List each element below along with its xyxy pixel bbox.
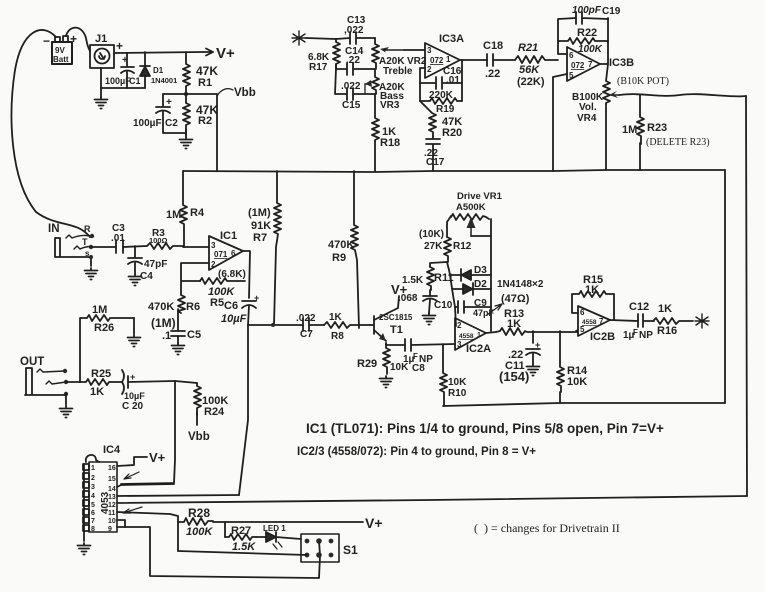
wire VR4 bottom to Vbb rail <box>605 107 607 170</box>
wire IC4 pin11 to R28/S1 <box>117 512 178 551</box>
diode D1 1N4001 <box>140 52 177 88</box>
switch S1 <box>301 534 358 562</box>
op-amp IC2B 4558 <box>578 306 615 343</box>
svg-text:D2: D2 <box>474 279 487 290</box>
svg-text:1K: 1K <box>90 386 104 398</box>
svg-text:R11: R11 <box>434 272 454 284</box>
svg-text:9: 9 <box>108 526 112 533</box>
svg-text:5: 5 <box>580 325 585 334</box>
wire OUT sleeve to ground <box>65 394 67 405</box>
svg-text:10µF: 10µF <box>221 313 247 325</box>
wire Vbb top rail <box>183 170 725 172</box>
node OUT tip <box>64 380 68 384</box>
resistor R1 47K <box>183 52 218 96</box>
svg-text:.22: .22 <box>485 68 500 80</box>
wire pin6 junction to feedback <box>558 18 576 54</box>
capacitor C3 .01 <box>111 223 125 253</box>
svg-text:10K: 10K <box>448 377 467 388</box>
svg-text:C 20: C 20 <box>122 401 144 412</box>
node IN tip <box>89 245 93 249</box>
svg-text:(6.8K): (6.8K) <box>218 269 246 280</box>
svg-text:27K: 27K <box>424 241 443 252</box>
svg-text:Vol.: Vol. <box>579 102 597 113</box>
svg-text:47pF: 47pF <box>473 308 495 318</box>
svg-text:1K: 1K <box>329 312 343 323</box>
resistor R13 1K <box>496 308 577 335</box>
pin pads IC4 left <box>83 464 89 470</box>
wire IC3A output feedback vertical <box>460 60 462 101</box>
pot VR1 Drive A500K <box>451 191 503 236</box>
svg-text:(B10K POT): (B10K POT) <box>617 76 669 87</box>
svg-text:470K: 470K <box>148 301 174 313</box>
svg-text:,022: ,022 <box>344 25 364 36</box>
svg-text:C1: C1 <box>129 76 141 86</box>
wire J1 to V+ <box>114 52 203 53</box>
wire IC4 pin14 to C20 node (via right) <box>117 484 174 487</box>
jack OUT <box>20 356 66 395</box>
svg-text:R21: R21 <box>518 42 538 54</box>
svg-text:.068: .068 <box>398 293 418 304</box>
svg-text:OUT: OUT <box>20 356 44 368</box>
svg-text:R: R <box>84 224 91 234</box>
svg-text:R18: R18 <box>380 137 400 149</box>
svg-text:1M: 1M <box>92 304 107 316</box>
resistor R2 47K <box>183 96 218 135</box>
wire IC3B output node <box>600 18 608 64</box>
svg-text:1N4001: 1N4001 <box>151 76 177 85</box>
svg-text:1.5K: 1.5K <box>402 275 424 286</box>
pot VR4 B100K Vol <box>572 64 669 124</box>
svg-text:1M: 1M <box>166 209 181 221</box>
svg-text:100K: 100K <box>186 526 213 538</box>
capacitor C7 .022 <box>296 313 324 340</box>
svg-text:Vbb: Vbb <box>234 87 256 99</box>
capacitor C4 47pF <box>128 246 167 282</box>
wire IN sleeve to ground <box>90 257 92 266</box>
capacitor C13 .022 <box>336 15 375 44</box>
svg-text:( ) = changes for Drivetrain: ( ) = changes for Drivetrain II <box>474 521 620 535</box>
wire VR1 left to R12 <box>447 216 451 237</box>
svg-text:R12: R12 <box>453 241 472 252</box>
svg-text:R28: R28 <box>188 506 210 520</box>
svg-text:R26: R26 <box>94 322 114 334</box>
diode D3 1N4148 <box>450 265 491 281</box>
wire R13 to IC2B pin5 <box>576 330 578 331</box>
svg-text:C2: C2 <box>165 118 178 129</box>
svg-text:NP: NP <box>639 330 653 341</box>
svg-text:+: + <box>122 55 128 66</box>
wire Vbb right rail <box>724 170 726 403</box>
svg-text:F: F <box>413 352 418 361</box>
svg-text:R25: R25 <box>91 368 111 380</box>
ground under J1 <box>95 97 108 109</box>
svg-text:C12: C12 <box>629 301 649 313</box>
svg-text:5: 5 <box>569 71 574 80</box>
wire right rail down to IC4 pin12 line <box>746 96 747 496</box>
svg-text:1N4148×2: 1N4148×2 <box>497 279 544 290</box>
wire J1 down to ground rail <box>101 68 145 88</box>
svg-text:9V: 9V <box>55 46 65 55</box>
svg-text:6: 6 <box>569 51 574 60</box>
capacitor C2 100uF <box>133 94 186 133</box>
svg-text:R4: R4 <box>190 207 205 219</box>
svg-text:R10: R10 <box>448 388 467 399</box>
svg-text:470K: 470K <box>328 239 354 251</box>
svg-text:R27: R27 <box>231 525 251 537</box>
ground under C10 <box>423 313 436 325</box>
IC IC4 4053 <box>83 444 121 533</box>
svg-text:IC3A: IC3A <box>439 33 464 45</box>
svg-text:VR3: VR3 <box>380 100 400 111</box>
svg-text:4558: 4558 <box>459 333 474 340</box>
svg-text:+: + <box>116 39 123 53</box>
svg-text:100µF: 100µF <box>105 76 131 86</box>
resistor R4 1M <box>166 171 205 247</box>
svg-text:Batt: Batt <box>53 55 69 64</box>
svg-text:13: 13 <box>108 494 116 501</box>
connector J1 power jack <box>90 33 123 68</box>
svg-text:6: 6 <box>91 510 95 517</box>
wire IC3A pin2 to feedback <box>420 68 425 101</box>
SECTION:OUTPUT <box>78 444 748 578</box>
ground under R2/C2 <box>185 129 187 137</box>
node C6/R7 junction <box>271 323 275 327</box>
resistor R20 47K <box>420 101 462 139</box>
wire Vbb bottom rail <box>443 403 725 406</box>
svg-text:15: 15 <box>108 476 116 483</box>
svg-text:3: 3 <box>91 484 95 491</box>
resistor R8 1K <box>324 312 371 342</box>
svg-text:IN: IN <box>48 223 60 235</box>
svg-text:91K: 91K <box>251 220 271 232</box>
svg-text:(DELETE R23): (DELETE R23) <box>646 137 710 148</box>
svg-text:071: 071 <box>214 250 228 259</box>
capacitor C8 1uF NP <box>403 339 455 374</box>
wire C3 to R3 <box>123 246 147 247</box>
svg-text:.01: .01 <box>446 75 460 86</box>
svg-text:10K: 10K <box>567 376 587 388</box>
svg-text:−: − <box>43 34 50 48</box>
svg-text:.1: .1 <box>162 330 171 342</box>
svg-text:100Ω: 100Ω <box>149 236 168 245</box>
op-amp IC2A 4558 <box>455 318 491 355</box>
node IN ring <box>90 234 94 238</box>
svg-text:V+: V+ <box>149 450 166 465</box>
svg-text:R22: R22 <box>577 27 597 39</box>
svg-text:R29: R29 <box>357 358 377 370</box>
resistor R25 1K <box>80 368 122 398</box>
svg-text:2SC1815: 2SC1815 <box>379 313 413 322</box>
node star output (to tone stack) <box>695 314 709 328</box>
wire battery minus to IN ring (long curve) <box>12 30 90 237</box>
SECTION:IC3B <box>296 171 709 406</box>
SECTION:RAILS <box>20 304 228 484</box>
svg-text:IC2/3 (4558/072): Pin 4 to gro: IC2/3 (4558/072): Pin 4 to ground, Pin 8… <box>297 446 536 458</box>
resistor R19 220K <box>420 90 462 115</box>
svg-text:V+: V+ <box>216 45 235 62</box>
resistor R21 56K (22K) <box>515 42 558 88</box>
wire C6 junction to C7 <box>248 324 303 326</box>
svg-text:(22K): (22K) <box>517 76 545 88</box>
svg-text:47K: 47K <box>196 64 218 78</box>
svg-text:R23: R23 <box>647 122 667 134</box>
pot VR3 A20K Bass <box>365 69 405 111</box>
wire OUT tip to R25/R26 junction <box>66 381 80 383</box>
SECTION:POWER <box>48 171 303 495</box>
wire IC2A out to R13 <box>486 332 496 333</box>
svg-text:C15: C15 <box>342 100 361 111</box>
svg-text:(1M): (1M) <box>248 207 271 219</box>
wire Vbb from node <box>186 94 217 171</box>
svg-text:100K: 100K <box>578 44 603 55</box>
capacitor C14 .22 <box>336 46 375 75</box>
resistor R26 1M <box>80 304 134 382</box>
capacitor C17 .22 <box>424 136 445 171</box>
wire R27 tap <box>224 522 226 537</box>
capacitor C20 10uF <box>122 370 175 412</box>
net label Vbb under R24 <box>196 412 198 425</box>
svg-text:6: 6 <box>580 308 585 317</box>
svg-text:C18: C18 <box>483 40 503 52</box>
resistor R5 100K (6.8K) <box>200 269 246 309</box>
capacitor C9 47pF <box>455 298 495 318</box>
svg-text:.01: .01 <box>111 233 125 244</box>
svg-text:100pF: 100pF <box>572 5 602 16</box>
SECTION:IC4 <box>297 421 664 535</box>
wire R23 bottom to Vbb rail <box>639 143 641 170</box>
wire node to C2 top <box>163 93 186 95</box>
resistor R22 100K <box>558 27 608 55</box>
svg-text:1K: 1K <box>507 318 521 330</box>
wire IC3A out to C18 <box>462 59 487 61</box>
resistor R12 27K (10K) <box>419 229 472 262</box>
svg-text:1: 1 <box>91 465 95 472</box>
svg-text:V+: V+ <box>365 515 383 531</box>
wire C20 junction to R24 <box>175 381 197 383</box>
svg-text:+: + <box>166 97 172 108</box>
svg-text:R17: R17 <box>309 62 328 73</box>
resistor R17 6.8K <box>308 39 340 73</box>
net label Vbb <box>217 89 233 96</box>
svg-text:072: 072 <box>430 56 444 65</box>
node star (to R16 output) <box>292 31 306 45</box>
diode LED1 <box>256 524 301 549</box>
annotation arrow at pin15 <box>124 472 139 479</box>
resistor R11 1.5K <box>402 267 454 290</box>
resistor R10 10K <box>440 344 467 406</box>
svg-text:2: 2 <box>457 321 462 330</box>
svg-text:IC1 (TL071): Pins 1/4 to groun: IC1 (TL071): Pins 1/4 to ground, Pins 5/… <box>306 421 664 436</box>
resistor R18 1K <box>372 94 400 171</box>
capacitor C19 100pF <box>572 5 621 24</box>
node R1/R2 junction <box>184 92 188 96</box>
wire battery plus to J1 <box>66 28 90 51</box>
svg-text:2: 2 <box>211 260 216 269</box>
resistor R28 100K <box>178 506 213 538</box>
capacitor C12 1uF NP <box>623 301 654 341</box>
svg-text:C6: C6 <box>224 300 238 312</box>
svg-text:220K: 220K <box>429 90 454 101</box>
capacitor C18 .22 <box>483 40 515 80</box>
capacitor C10 .068 <box>398 290 453 313</box>
svg-text:R7: R7 <box>253 232 267 244</box>
annotation (47 ohm) with arrow <box>487 293 530 315</box>
svg-text:100µF: 100µF <box>133 118 162 129</box>
svg-text:.022: .022 <box>296 313 316 324</box>
resistor R15 1K feedback <box>572 274 614 320</box>
wire star to tone stack <box>306 38 336 39</box>
resistor R29 10K <box>357 343 409 374</box>
svg-text:J1: J1 <box>95 33 107 45</box>
svg-text:C19: C19 <box>602 6 621 17</box>
resistor R24 100K <box>194 383 228 418</box>
resistor R14 10K <box>557 331 588 392</box>
wire IC4 left rail to ground <box>83 464 85 541</box>
svg-text:S1: S1 <box>343 543 358 557</box>
svg-text:12: 12 <box>108 502 116 509</box>
svg-text:56K: 56K <box>519 64 540 76</box>
svg-text:+: + <box>535 340 540 350</box>
wire IC4 pin9/10 step <box>117 520 125 527</box>
svg-text:R20: R20 <box>442 127 462 139</box>
wire tip to C3 <box>91 246 116 248</box>
svg-text:11: 11 <box>108 510 116 517</box>
svg-text:.22: .22 <box>346 55 360 66</box>
wire IC3B pin5 down to Vbb rail <box>553 74 567 171</box>
svg-text:R24: R24 <box>204 406 225 418</box>
svg-text:5: 5 <box>91 502 95 509</box>
resistor R23 1M <box>622 95 710 148</box>
pot VR2 A20K Treble <box>372 38 427 77</box>
svg-text:+: + <box>130 372 135 382</box>
svg-text:2: 2 <box>91 475 95 482</box>
svg-text:+: + <box>254 293 259 303</box>
svg-text:R9: R9 <box>332 252 346 264</box>
resistor R3 100ohm <box>147 228 183 249</box>
svg-text:R6: R6 <box>186 301 200 313</box>
wire VR2 wiper to IC3A pin3 <box>404 49 425 51</box>
svg-text:6: 6 <box>231 249 236 258</box>
svg-text:8: 8 <box>91 526 95 533</box>
svg-text:1.5K: 1.5K <box>232 541 256 553</box>
svg-text:(1M): (1M) <box>151 316 176 330</box>
svg-text:10: 10 <box>108 518 116 525</box>
svg-text:(10K): (10K) <box>419 229 444 240</box>
svg-text:T1: T1 <box>390 324 403 336</box>
svg-text:R16: R16 <box>657 325 677 337</box>
svg-text:1K: 1K <box>585 284 599 296</box>
svg-text:C17: C17 <box>426 157 445 168</box>
svg-text:C7: C7 <box>300 329 313 340</box>
op-amp IC3B 072 <box>567 47 634 81</box>
capacitor C11 .22 (154) <box>499 331 540 384</box>
svg-text:T: T <box>82 237 88 247</box>
svg-text:F: F <box>633 328 638 337</box>
resistor R16 1K <box>653 303 693 337</box>
svg-text:C10: C10 <box>434 300 453 311</box>
svg-text:R19: R19 <box>436 104 455 115</box>
svg-text:16: 16 <box>108 465 116 472</box>
resistor R27 1.5K <box>225 525 256 553</box>
SECTION:INPUT <box>292 15 558 171</box>
op-amp IC1 TL071 <box>209 230 243 270</box>
svg-text:072: 072 <box>571 61 585 70</box>
svg-text:7: 7 <box>588 60 593 69</box>
wire IC2B out to C12 <box>610 320 638 321</box>
svg-text:1K: 1K <box>658 303 672 315</box>
svg-text:IC1: IC1 <box>220 230 237 242</box>
svg-text:3: 3 <box>211 241 216 250</box>
svg-text:(154): (154) <box>499 369 529 384</box>
battery B1 9V <box>43 32 77 64</box>
svg-text:7: 7 <box>91 518 95 525</box>
resistor R9 470K <box>328 171 359 328</box>
wire IC4 pin12 long line to right rail <box>117 496 747 503</box>
svg-text:R5: R5 <box>210 297 224 309</box>
jack IN <box>48 223 92 258</box>
diode D2 1N4148 <box>452 279 544 295</box>
svg-text:1: 1 <box>477 332 481 339</box>
svg-text:IC3B: IC3B <box>609 57 634 69</box>
svg-text:C8: C8 <box>412 363 425 374</box>
wire R12 to diode ladder left rail <box>447 262 456 326</box>
svg-text:4558: 4558 <box>582 319 597 326</box>
V+ arrow <box>203 49 213 56</box>
svg-text:7: 7 <box>599 317 604 326</box>
wire VR4 wiper to right rail <box>619 94 746 96</box>
svg-text:IC2A: IC2A <box>466 343 491 355</box>
wire IC1 output down <box>243 251 250 298</box>
svg-text:Drive VR1: Drive VR1 <box>457 191 503 202</box>
svg-text:1: 1 <box>446 55 451 64</box>
svg-text:2: 2 <box>427 65 432 74</box>
svg-text:10µF: 10µF <box>124 391 145 401</box>
wire R28 to V+ <box>213 521 363 523</box>
svg-text:Vbb: Vbb <box>188 431 210 443</box>
svg-text:C5: C5 <box>187 329 201 341</box>
wire C6 junction down to IC4 pin13 rail <box>239 325 248 495</box>
ground under C5 <box>172 343 185 355</box>
svg-text:(47Ω): (47Ω) <box>501 293 530 305</box>
wire C20 junction down to IC4 pin14 <box>121 381 175 484</box>
svg-text:IC2B: IC2B <box>590 331 615 343</box>
resistor R6 470K (1M) <box>148 282 200 330</box>
svg-text:IC4: IC4 <box>103 444 121 456</box>
svg-text:3: 3 <box>457 340 462 349</box>
svg-text:LED 1: LED 1 <box>263 524 286 533</box>
SECTION:DRIVE <box>183 170 725 406</box>
transistor T1 2SC1815 <box>371 282 413 341</box>
wire IC4 pin16 to V+ <box>117 457 147 466</box>
svg-text:Treble: Treble <box>383 66 413 77</box>
svg-text:47pF: 47pF <box>144 259 167 270</box>
svg-text:D1: D1 <box>153 66 164 75</box>
node OUT ring <box>63 369 67 373</box>
svg-text:1M: 1M <box>622 124 637 136</box>
SECTION:TONE <box>553 5 747 496</box>
wire VR1 right rail down to IC2A output <box>490 219 492 331</box>
wire R11 tap <box>430 262 447 267</box>
svg-text:3: 3 <box>427 46 432 55</box>
capacitor C16 .01 <box>420 66 462 89</box>
capacitor C6 10uF <box>221 293 259 325</box>
wire R14 bottom to Vbb rail <box>559 392 561 403</box>
svg-text:R8: R8 <box>331 331 344 342</box>
ground under C11 <box>527 364 540 376</box>
svg-text:+: + <box>70 32 77 46</box>
capacitor C15 .022 <box>335 69 375 111</box>
svg-text:4: 4 <box>91 493 95 500</box>
